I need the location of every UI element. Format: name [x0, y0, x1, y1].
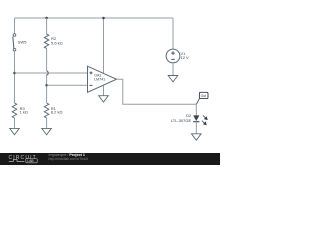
resistor R2 — [44, 34, 48, 48]
CircuitLab logo — [9, 155, 38, 163]
svg-text:LTL-307GE: LTL-307GE — [171, 118, 192, 123]
svg-text:8.2 kΩ: 8.2 kΩ — [51, 109, 63, 114]
op-amp ground stem — [103, 86, 105, 96]
node junction R2 branch to op-amp minus — [45, 84, 48, 87]
wire V1 from rail — [172, 18, 174, 49]
ground below op-amp — [99, 96, 109, 102]
hop arc over plus wire — [47, 71, 49, 75]
wire R2 branch upper — [46, 18, 48, 34]
svg-text:12 V: 12 V — [181, 55, 190, 60]
wire below R1 — [46, 118, 48, 128]
wire top rail — [15, 17, 174, 19]
wire below R3 — [14, 118, 16, 128]
LED arrows — [202, 115, 207, 124]
op-amp OA2 LM741 — [88, 66, 117, 92]
wire from output corner down to LED — [195, 104, 197, 115]
node junction rail-supply — [102, 17, 105, 20]
svg-text:LM741: LM741 — [94, 77, 105, 81]
voltage source V1 — [166, 49, 180, 63]
wire left branch upper — [14, 18, 16, 34]
node junction rail-R2 — [45, 17, 48, 20]
wire left branch middle — [14, 51, 16, 103]
node junction at left branch to op-amp + — [13, 72, 16, 75]
svg-text:SW5: SW5 — [18, 40, 27, 45]
wire op-amp output — [117, 79, 197, 104]
svg-text:1 kΩ: 1 kΩ — [20, 109, 28, 114]
ground below V1 — [168, 76, 178, 82]
ground below LED — [192, 134, 202, 140]
LED D2 — [193, 115, 199, 121]
switch SW5 — [13, 34, 16, 51]
ground below R3 — [10, 128, 20, 134]
svg-text:Out: Out — [201, 94, 207, 98]
resistor R1 — [44, 103, 48, 118]
ground below R1 — [42, 128, 52, 134]
footer bar — [0, 153, 220, 165]
svg-text:http://circuitlab.com/c/7tnc2t: http://circuitlab.com/c/7tnc2t — [49, 157, 89, 161]
wire below V1 — [172, 63, 174, 76]
svg-text:LAB: LAB — [27, 159, 34, 163]
resistor R3 — [12, 103, 16, 118]
wire to op-amp plus input — [15, 72, 88, 74]
svg-text:5.6 kΩ: 5.6 kΩ — [51, 40, 63, 45]
wire below LED — [195, 122, 197, 134]
node flag Out — [196, 92, 208, 104]
wire R2 branch middle with hop over + wire — [47, 48, 49, 103]
wire op-amp supply from rail — [103, 18, 105, 73]
wire to op-amp minus input — [47, 84, 88, 86]
